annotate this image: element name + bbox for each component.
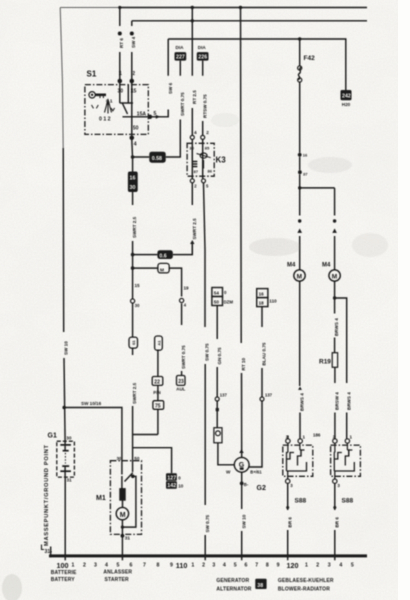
svg-text:SW 10/16: SW 10/16 (81, 401, 102, 406)
svg-text:2: 2 (206, 130, 209, 135)
svg-text:186: 186 (313, 433, 321, 438)
svg-text:242: 242 (342, 94, 351, 100)
svg-text:SWRT 2.5: SWRT 2.5 (192, 218, 197, 240)
svg-text:110: 110 (176, 561, 188, 570)
svg-text:SWRT 2.5: SWRT 2.5 (132, 382, 137, 404)
svg-text:50: 50 (214, 300, 220, 305)
svg-text:M4: M4 (322, 263, 331, 269)
svg-text:1: 1 (72, 563, 75, 569)
svg-text:8: 8 (157, 563, 160, 569)
svg-text:5: 5 (351, 563, 354, 569)
svg-text:3: 3 (94, 563, 97, 569)
svg-text:0.58: 0.58 (152, 156, 162, 162)
svg-text:BATTERY: BATTERY (51, 577, 76, 583)
svg-text:2: 2 (202, 563, 205, 569)
svg-text:6: 6 (245, 563, 248, 569)
svg-text:4: 4 (134, 142, 137, 148)
svg-text:37: 37 (303, 172, 308, 177)
svg-text:SW 0.75: SW 0.75 (205, 343, 210, 361)
svg-text:22: 22 (154, 380, 160, 386)
svg-text:2: 2 (316, 563, 319, 569)
svg-text:30: 30 (135, 303, 140, 308)
svg-text:0 1 2: 0 1 2 (99, 117, 111, 123)
svg-text:30: 30 (130, 185, 136, 191)
svg-text:BLAU 0.75: BLAU 0.75 (262, 342, 267, 365)
svg-text:227: 227 (176, 55, 185, 61)
svg-text:ALTERNATOR: ALTERNATOR (216, 586, 251, 592)
svg-text:M: M (297, 274, 302, 281)
svg-text:120: 120 (287, 561, 299, 570)
svg-text:RT 6: RT 6 (119, 38, 124, 48)
svg-text:SW 0.75: SW 0.75 (205, 514, 210, 532)
svg-text:M: M (160, 268, 164, 274)
svg-text:SWRT 2.5: SWRT 2.5 (132, 216, 137, 238)
svg-text:6: 6 (130, 563, 133, 569)
svg-text:127: 127 (167, 475, 176, 481)
svg-text:G2: G2 (257, 485, 266, 492)
svg-text:M: M (120, 512, 126, 519)
svg-text:2: 2 (83, 563, 86, 569)
svg-text:SW 6: SW 6 (168, 82, 173, 94)
svg-text:GN 0.75: GN 0.75 (217, 347, 222, 365)
svg-text:R19: R19 (319, 359, 331, 366)
svg-text:5: 5 (117, 563, 120, 569)
svg-text:BATTERIE: BATTERIE (51, 570, 77, 576)
svg-text:4: 4 (223, 563, 226, 569)
svg-text:15: 15 (135, 283, 141, 288)
svg-text:18: 18 (259, 301, 265, 306)
svg-text:STARTER: STARTER (105, 577, 130, 583)
svg-text:54: 54 (214, 291, 220, 296)
svg-text:61: 61 (131, 340, 136, 345)
svg-text:M: M (332, 274, 337, 281)
svg-text:50: 50 (134, 456, 140, 461)
svg-text:16: 16 (259, 292, 265, 297)
svg-text:MASSEPUNKT/GROUND POINT: MASSEPUNKT/GROUND POINT (44, 444, 50, 546)
svg-text:137: 137 (265, 393, 273, 398)
svg-text:5: 5 (234, 563, 237, 569)
svg-text:110: 110 (269, 299, 277, 304)
svg-text:H20: H20 (342, 102, 351, 107)
svg-text:1: 1 (305, 563, 308, 569)
svg-text:19: 19 (184, 286, 190, 291)
svg-text:2: 2 (132, 71, 135, 77)
svg-text:SWRT 0.75: SWRT 0.75 (181, 345, 186, 369)
svg-text:BRWS 4: BRWS 4 (300, 393, 305, 411)
svg-text:0.1: 0.1 (106, 99, 113, 104)
svg-text:7: 7 (255, 563, 258, 569)
svg-text:16: 16 (303, 153, 308, 158)
svg-text:4: 4 (339, 563, 342, 569)
svg-text:RTSW 0.75: RTSW 0.75 (202, 94, 207, 118)
svg-text:DZM: DZM (224, 300, 234, 305)
svg-text:BRWS 4: BRWS 4 (346, 392, 351, 410)
svg-text:75: 75 (155, 404, 161, 410)
svg-text:S1: S1 (87, 70, 97, 79)
svg-text:86: 86 (208, 169, 213, 174)
svg-text:50: 50 (133, 126, 139, 132)
svg-text:DIA: DIA (176, 45, 185, 50)
svg-text:1: 1 (119, 71, 122, 77)
svg-text:SWRT 0.75: SWRT 0.75 (180, 92, 185, 116)
svg-text:30: 30 (118, 89, 124, 95)
svg-text:S88: S88 (342, 498, 354, 505)
svg-text:5: 5 (154, 111, 157, 117)
svg-text:A1: A1 (156, 340, 161, 346)
svg-text:1: 1 (191, 563, 194, 569)
svg-text:142: 142 (167, 483, 176, 489)
svg-text:23: 23 (178, 379, 184, 385)
svg-text:10: 10 (178, 483, 183, 488)
svg-text:15: 15 (131, 89, 137, 95)
svg-text:0.6: 0.6 (159, 254, 166, 260)
svg-text:31: 31 (67, 478, 73, 483)
svg-text:W: W (226, 469, 231, 474)
svg-text:4: 4 (194, 130, 197, 135)
svg-text:B+/61: B+/61 (250, 469, 262, 474)
svg-text:87: 87 (194, 169, 199, 174)
svg-text:137: 137 (220, 393, 228, 398)
svg-text:30: 30 (66, 436, 72, 441)
svg-text:SW 10: SW 10 (63, 341, 68, 355)
svg-text:15A: 15A (137, 112, 147, 118)
svg-text:31-: 31- (45, 549, 53, 555)
svg-text:AUL: AUL (176, 387, 185, 392)
svg-text:85: 85 (205, 146, 210, 151)
svg-text:DIA: DIA (198, 45, 207, 50)
svg-text:M4: M4 (287, 263, 296, 269)
svg-text:ANLASSER: ANLASSER (103, 570, 132, 576)
svg-text:BRSW 4: BRSW 4 (335, 392, 340, 410)
svg-text:3: 3 (328, 563, 331, 569)
svg-text:F42: F42 (304, 55, 316, 62)
svg-text:B-: B- (244, 482, 249, 487)
svg-text:BRWS 4: BRWS 4 (334, 318, 339, 336)
svg-text:BLOWER-RADIATOR: BLOWER-RADIATOR (278, 586, 330, 592)
svg-text:3: 3 (212, 563, 215, 569)
svg-text:GENERATOR: GENERATOR (216, 578, 249, 584)
svg-text:RT 10: RT 10 (241, 358, 246, 371)
svg-text:K3: K3 (216, 156, 227, 165)
svg-text:M1: M1 (96, 495, 106, 502)
svg-text:G1: G1 (48, 433, 57, 440)
svg-text:SW 10: SW 10 (241, 514, 246, 528)
svg-text:30: 30 (117, 456, 123, 461)
svg-text:S88: S88 (295, 498, 307, 505)
svg-text:226: 226 (198, 55, 207, 61)
svg-text:SW 4: SW 4 (131, 36, 136, 48)
svg-text:100: 100 (57, 561, 69, 570)
svg-text:9: 9 (277, 563, 280, 569)
svg-text:G: G (239, 462, 245, 469)
svg-text:RT 2.5: RT 2.5 (192, 90, 197, 104)
svg-text:BR 6: BR 6 (334, 517, 339, 528)
svg-text:30: 30 (190, 146, 195, 151)
svg-text:16: 16 (130, 176, 136, 182)
svg-text:BR 6: BR 6 (287, 517, 292, 528)
svg-text:4: 4 (105, 563, 108, 569)
svg-text:8: 8 (266, 563, 269, 569)
svg-text:P/N: P/N (153, 390, 160, 395)
svg-text:9: 9 (170, 563, 173, 569)
svg-text:31: 31 (125, 536, 131, 541)
svg-text:7: 7 (143, 563, 146, 569)
svg-text:GEBLAESE-KUEHLER: GEBLAESE-KUEHLER (278, 578, 334, 584)
svg-text:38: 38 (257, 583, 263, 589)
